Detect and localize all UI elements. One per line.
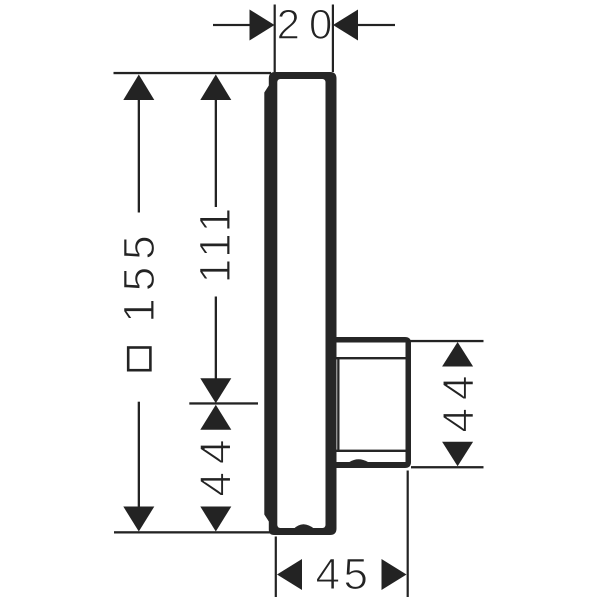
dim 111: bottom arrowhead [200, 378, 231, 403]
dim 45: left arrowhead [277, 559, 302, 590]
dim 44 right: top extension line [407, 340, 484, 342]
dim 20: label [279, 9, 331, 39]
bottom extension line (155/44 datum) [114, 531, 273, 533]
plate body outline (escutcheon side view) [264, 72, 336, 535]
dim 44 right: bottom extension line [411, 466, 484, 468]
top extension line (155/111 datum) [114, 72, 272, 74]
dim 155: label [124, 237, 155, 319]
valve housing inner bottom line [337, 450, 406, 452]
dim 155: bottom arrowhead [123, 507, 154, 532]
valve housing inner (white) [337, 343, 406, 463]
valve housing bottom edge bump [349, 459, 369, 462]
dim 45: right arrowhead [382, 559, 407, 590]
dim 155: upper line segment [138, 99, 140, 213]
dim 111: top arrowhead [200, 75, 231, 101]
dim 20: right arrowhead [333, 10, 358, 41]
dim 20: left arrow tail [213, 24, 252, 26]
valve housing inner left line [337, 357, 339, 452]
dim 45: right extension line [407, 471, 409, 598]
plate inner face (white) [277, 79, 325, 528]
dim 20: left extension line [274, 5, 276, 73]
dim 20: right extension line [332, 5, 334, 73]
plate bottom edge bump [294, 524, 314, 528]
dim 44 right: label [443, 377, 473, 432]
dim 45: label [317, 559, 367, 590]
dim 155: top arrowhead [123, 75, 154, 101]
dim 44 right: top arrowhead [442, 342, 473, 367]
dim 111: lower line segment [215, 297, 217, 380]
dim 44 left: top arrowhead [200, 405, 231, 430]
valve housing inner top line [337, 357, 406, 359]
dim 20: left arrowhead [250, 10, 275, 41]
dim 45: left extension line [275, 537, 277, 598]
dim 44 right: bottom arrowhead [442, 442, 473, 467]
centerline tick of housing [189, 402, 258, 404]
dim 111: upper line segment [215, 99, 217, 207]
dim 20: right arrow tail [356, 24, 396, 26]
dim 155: lower line segment [138, 402, 140, 508]
dim 44 left: label [200, 441, 230, 496]
dim 155: square symbol [128, 348, 150, 371]
valve housing box outline [337, 337, 412, 468]
dim 44 left: bottom arrowhead [200, 507, 231, 532]
dim 111: label [200, 210, 230, 280]
